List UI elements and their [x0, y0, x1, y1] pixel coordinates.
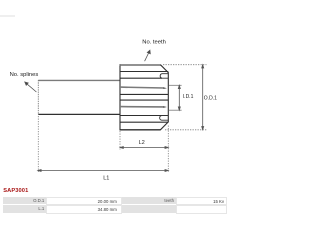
faint top-left artifact: [0, 15, 15, 17]
gear bottom chamfer: [160, 122, 168, 130]
gear tooth line y=122.2: [120, 121, 168, 123]
shaft left spline edge: [37, 80, 39, 115]
svg-text:L1: L1: [103, 176, 109, 182]
svg-text:L2: L2: [139, 140, 145, 146]
svg-text:No. splines: No. splines: [10, 72, 39, 78]
shaft top edge: [38, 79, 120, 81]
spec table row2: [3, 205, 46, 213]
gear tooth line y=100.1: [120, 99, 168, 101]
gear top pocket (rounded tooth root): [160, 74, 168, 79]
O.D.1 dimension line: [202, 65, 204, 130]
L1 dimension line: [38, 170, 169, 172]
gear tooth line y=78.2: [120, 77, 162, 79]
spec table row1: [3, 197, 46, 204]
gear top edge: [120, 64, 161, 66]
gear bottom edge: [120, 129, 161, 131]
L2 dimension line: [120, 147, 168, 149]
gear tooth line y=71.5: [120, 71, 168, 73]
leader arrow for teeth: [145, 50, 151, 61]
gear top chamfer: [160, 65, 168, 73]
O.D.1 extension line top: [163, 64, 207, 66]
svg-text:O.D.1: O.D.1: [204, 96, 217, 102]
I.D.1 extension line top: [169, 84, 182, 86]
O.D.1 extension line bottom: [165, 129, 207, 131]
shaft bottom edge: [38, 113, 120, 115]
gear tooth line y=94.4: [120, 93, 168, 95]
upper helical tooth tip: [120, 87, 167, 89]
gear tooth line y=115.5: [120, 115, 162, 117]
I.D.1 dimension line: [178, 85, 180, 110]
svg-text:I.D.1: I.D.1: [183, 94, 194, 100]
L1 extension line left (dashed, from shaft bottom-left): [37, 116, 39, 172]
L1/L2 extension line right (dashed, from gear right corner): [167, 126, 169, 173]
gear bottom pocket (rounded tooth root): [160, 116, 169, 121]
part number: [3, 188, 28, 194]
gear right edge: [167, 72, 169, 122]
leader arrow for splines: [25, 82, 37, 92]
lower helical tooth tip: [120, 106, 167, 108]
gear left edge: [119, 64, 121, 130]
L2 extension line left (dashed, from gear bottom-left): [119, 131, 121, 150]
svg-text:No. teeth: No. teeth: [142, 39, 166, 45]
I.D.1 extension line bottom: [169, 109, 182, 111]
